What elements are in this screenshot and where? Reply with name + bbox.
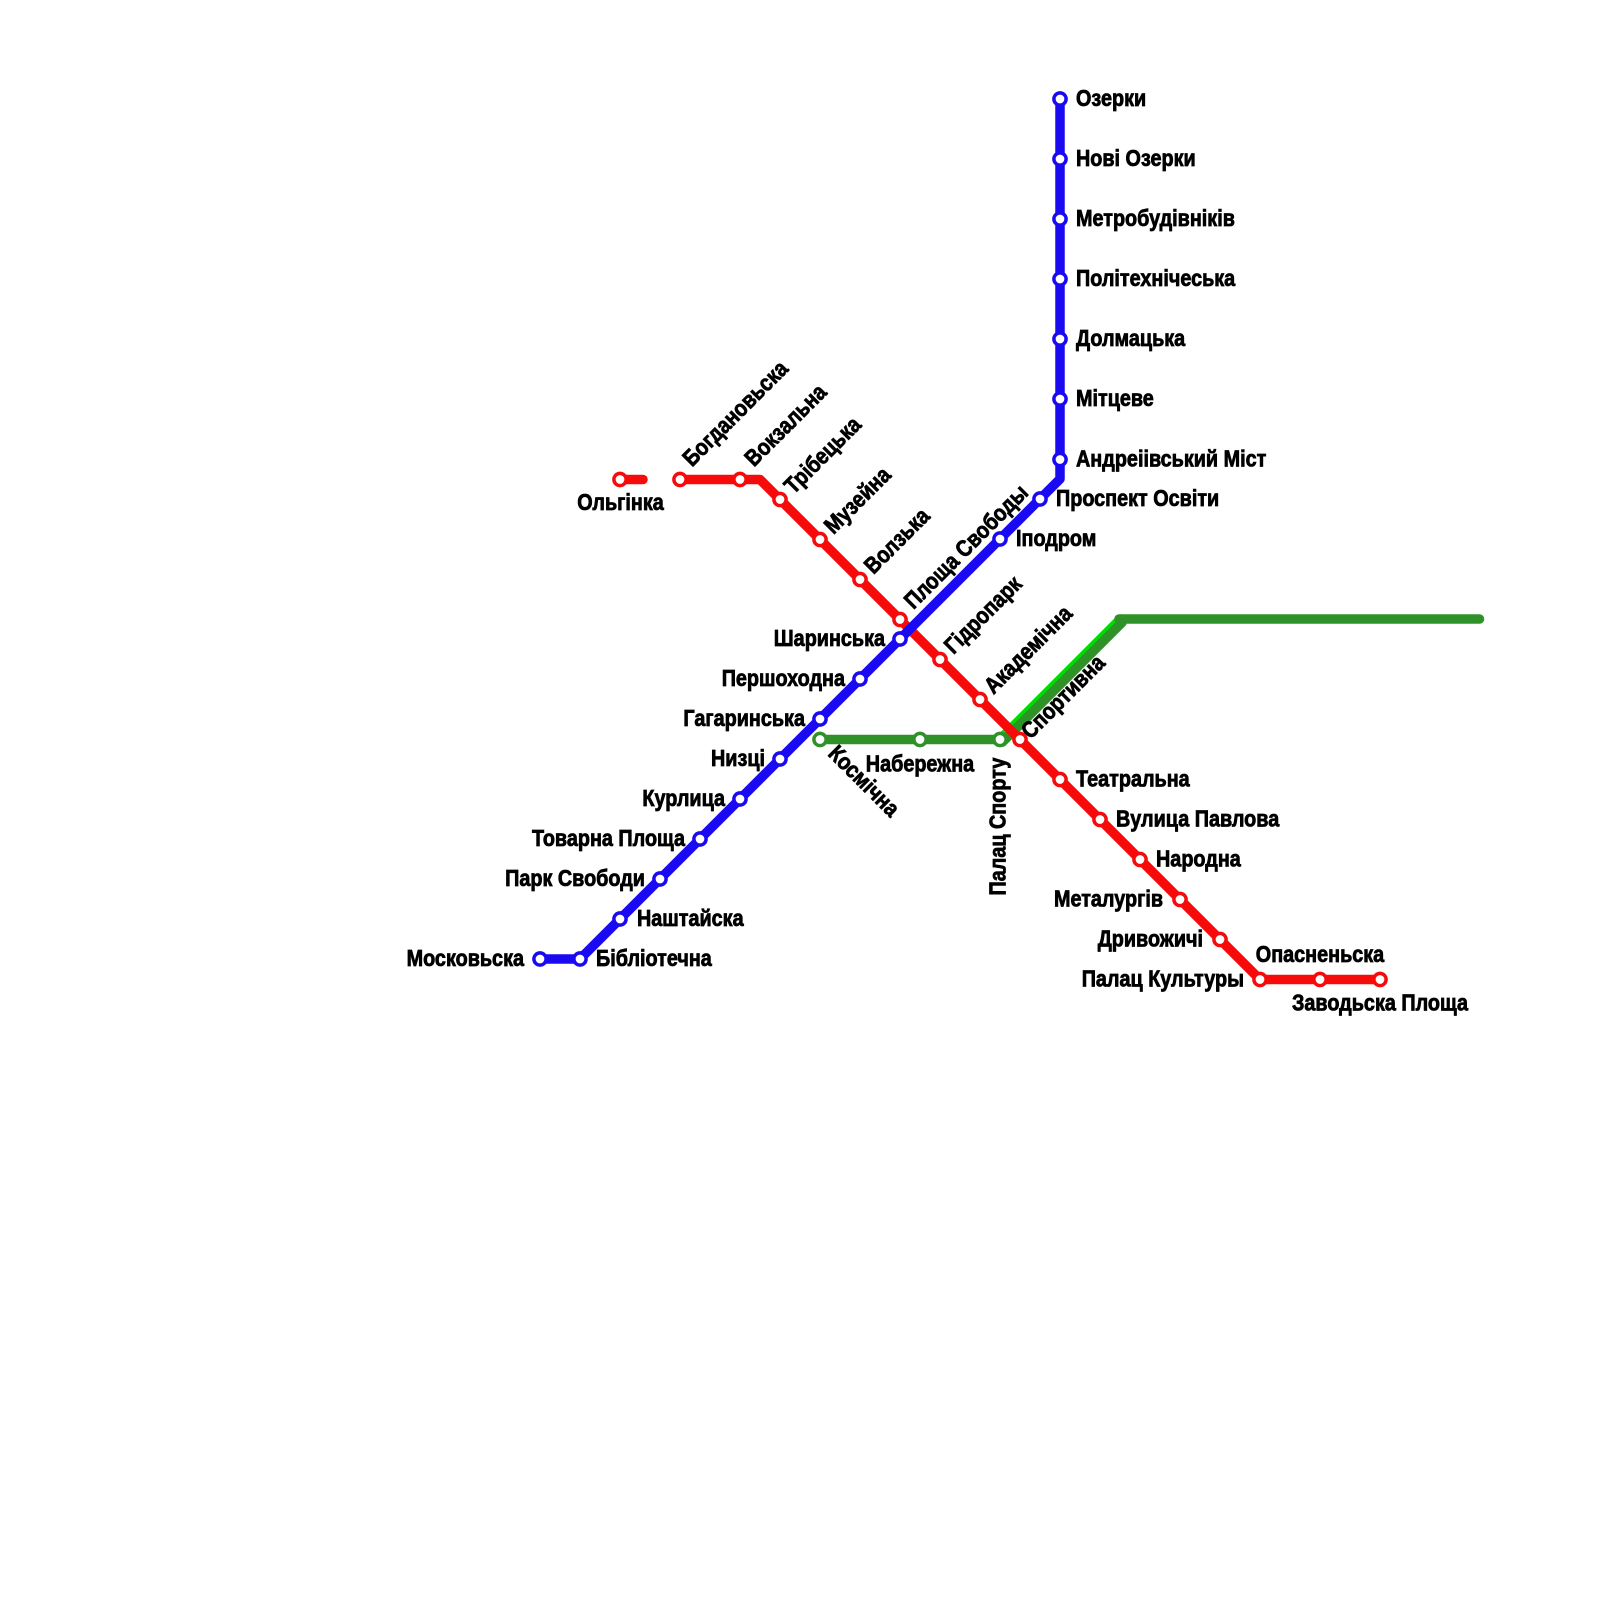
- station circle Низці: [774, 753, 786, 765]
- station circle Метробудівніків: [1054, 213, 1066, 225]
- station circle Нові Озерки: [1054, 153, 1066, 165]
- station circle Іподром: [994, 533, 1006, 545]
- station circle Наштайска: [614, 913, 626, 925]
- station circle Опасненьска: [1314, 973, 1326, 985]
- station circle Академічна: [974, 693, 986, 705]
- red line west stub (Ольгінка): [620, 475, 643, 485]
- svg-text:Народна: Народна: [1156, 846, 1241, 872]
- svg-text:Театральна: Театральна: [1076, 766, 1190, 792]
- svg-text:Курлица: Курлица: [642, 785, 725, 811]
- svg-text:Набережна: Набережна: [866, 751, 975, 777]
- station circle Проспект Освіти: [1034, 493, 1046, 505]
- station circle Металургів: [1174, 893, 1186, 905]
- svg-text:Опасненьска: Опасненьска: [1256, 941, 1385, 967]
- svg-text:Товарна Площа: Товарна Площа: [532, 825, 685, 851]
- svg-text:Бібліотечна: Бібліотечна: [596, 945, 712, 971]
- svg-text:Долмацька: Долмацька: [1076, 325, 1185, 351]
- station circle Народна: [1134, 853, 1146, 865]
- red line main (Богдановьска - Палац Культуры - Заводьска Площа): [680, 480, 1380, 980]
- station circle Парк Свободи: [654, 873, 666, 885]
- station circle Театральна: [1054, 773, 1066, 785]
- svg-text:Музейна: Музейна: [819, 461, 896, 538]
- blue line (Озерки - Бібліотечна - Московьска): [540, 99, 1060, 959]
- svg-text:Політехнічеська: Політехнічеська: [1076, 265, 1235, 291]
- svg-text:Вулица Павлова: Вулица Павлова: [1116, 806, 1279, 832]
- station circle Політехнічеська: [1054, 273, 1066, 285]
- svg-text:Низці: Низці: [711, 745, 765, 771]
- svg-text:Нові Озерки: Нові Озерки: [1076, 145, 1196, 171]
- station circle Озерки: [1054, 93, 1066, 105]
- station circle Набережна: [914, 733, 926, 745]
- station circle Музейна: [814, 533, 826, 545]
- station circle Трібецька: [774, 493, 786, 505]
- station circle Мітцеве: [1054, 393, 1066, 405]
- svg-text:Озерки: Озерки: [1076, 85, 1146, 111]
- station circle Андреіівський Міст: [1054, 453, 1066, 465]
- svg-text:Наштайска: Наштайска: [637, 905, 744, 931]
- station circle Товарна Площа: [694, 833, 706, 845]
- green line east segment (bend - east end): [1119, 614, 1480, 624]
- svg-text:Волзька: Волзька: [859, 502, 935, 578]
- svg-text:Заводьска Площа: Заводьска Площа: [1292, 990, 1468, 1016]
- svg-text:Першоходна: Першоходна: [722, 665, 845, 691]
- station circle Космічна: [814, 733, 826, 745]
- svg-text:Іподром: Іподром: [1016, 525, 1096, 551]
- station circle Вокзальна: [734, 473, 746, 485]
- station circle Вулица Павлова: [1094, 813, 1106, 825]
- station circle Московьска: [534, 953, 546, 965]
- svg-text:Андреіівський Міст: Андреіівський Міст: [1076, 446, 1266, 472]
- station circle Палац Культуры: [1254, 973, 1266, 985]
- station circle Бібліотечна: [574, 953, 586, 965]
- svg-text:Мітцеве: Мітцеве: [1076, 385, 1154, 411]
- station circle Спортивна: [1014, 733, 1026, 745]
- station circle Богдановьска: [674, 473, 686, 485]
- svg-text:Метробудівніків: Метробудівніків: [1076, 205, 1235, 231]
- svg-text:Ольгінка: Ольгінка: [577, 489, 664, 515]
- svg-text:Проспект Освіти: Проспект Освіти: [1056, 485, 1219, 511]
- svg-text:Парк Свободи: Парк Свободи: [505, 865, 645, 891]
- station circle Заводьска Площа: [1374, 973, 1386, 985]
- svg-text:Шаринська: Шаринська: [774, 625, 885, 651]
- svg-text:Дривожичі: Дривожичі: [1098, 926, 1203, 952]
- station circle Гідропарк: [934, 653, 946, 665]
- station circle Площа Свободы: [894, 613, 906, 625]
- station circle Дривожичі: [1214, 933, 1226, 945]
- station circle Ольгінка: [614, 473, 626, 485]
- station circle Першоходна: [854, 673, 866, 685]
- svg-text:Гагаринська: Гагаринська: [683, 705, 805, 731]
- station circle Долмацька: [1054, 333, 1066, 345]
- svg-text:Палац Культуры: Палац Культуры: [1082, 966, 1244, 992]
- svg-text:Московьска: Московьска: [407, 945, 525, 971]
- svg-text:Палац Спорту: Палац Спорту: [985, 757, 1011, 895]
- station circle Шаринська: [894, 633, 906, 645]
- station circle Курлица: [734, 793, 746, 805]
- station circle Волзька: [854, 573, 866, 585]
- svg-text:Металургів: Металургів: [1054, 886, 1163, 912]
- station circle Гагаринська: [814, 713, 826, 725]
- green line diagonal segment (Палац Спорту - bend): [1003, 623, 1123, 743]
- svg-text:Богдановьска: Богдановьска: [677, 355, 793, 471]
- green line bright edge segment (Палац Спорту diagonal): [1000, 619, 1121, 740]
- station circle Палац Спорту: [994, 733, 1006, 745]
- green line west segment (Космічна - Палац Спорту): [818, 735, 1000, 745]
